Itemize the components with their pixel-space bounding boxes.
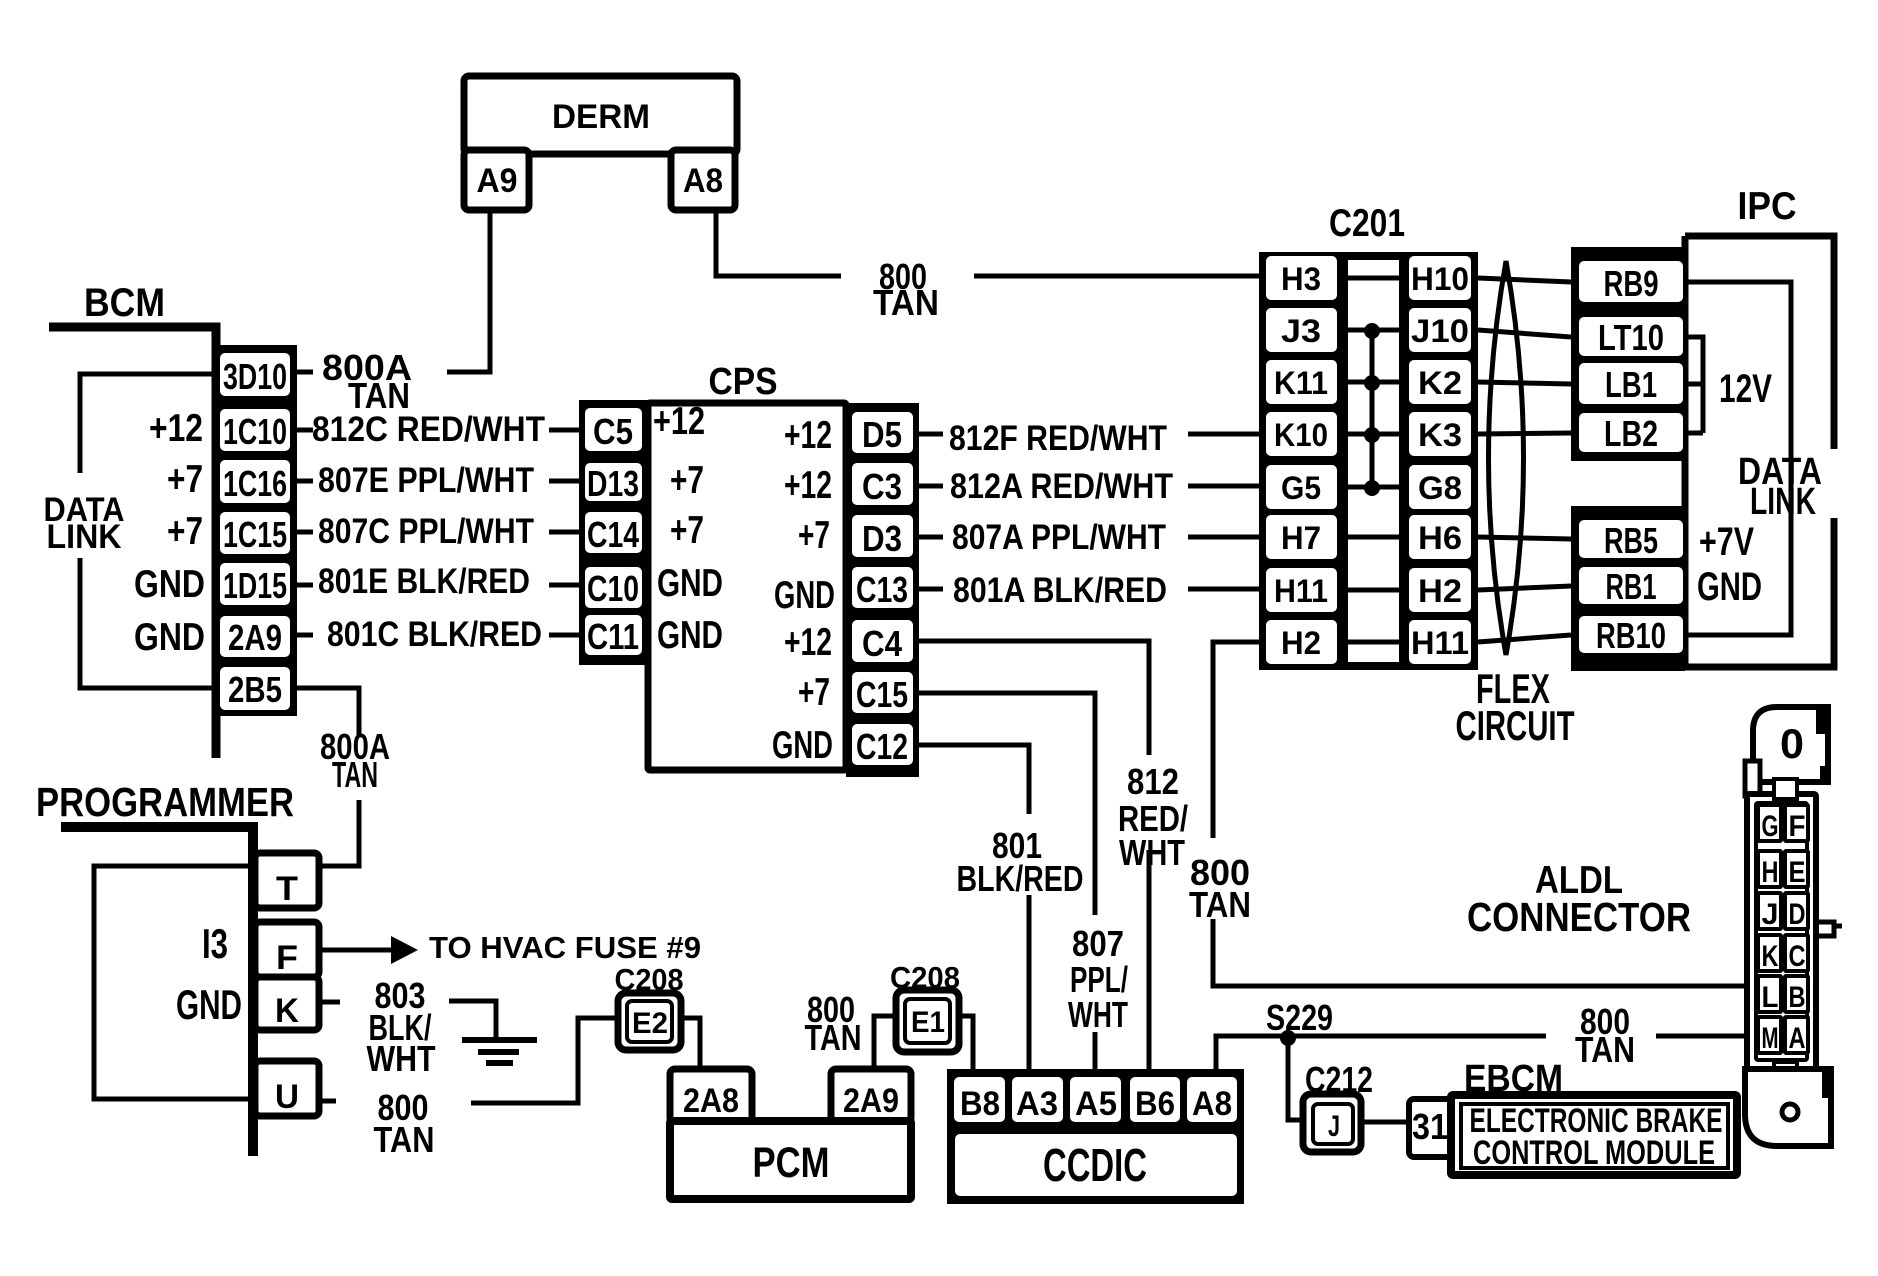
wire 800A TAN (BCM 3D10 to DERM A9) <box>297 210 490 372</box>
svg-text:0: 0 <box>1780 720 1804 767</box>
ALDL bottom notch <box>1774 1062 1797 1080</box>
ALDL top tab lower black accent <box>1820 766 1829 782</box>
pin H10 (C201 right) <box>1409 256 1471 300</box>
wire J10 to IPC LT10 <box>1478 330 1571 337</box>
svg-text:+7: +7 <box>798 514 830 557</box>
svg-text:PROGRAMMER: PROGRAMMER <box>36 779 294 825</box>
ALDL pin F <box>1785 805 1808 841</box>
PROGRAMMER internal bracket <box>94 866 253 1099</box>
svg-text:WHT: WHT <box>367 1038 436 1079</box>
CPS main body <box>648 403 846 770</box>
BCM pin group 2 <box>212 608 297 716</box>
svg-text:GND: GND <box>774 574 835 617</box>
wire 812A RED/WHT (CPS C3 to C201 G5) <box>919 484 1262 489</box>
svg-text:1C16: 1C16 <box>223 463 287 504</box>
svg-text:C12: C12 <box>856 726 908 767</box>
module IPC outline <box>1685 236 1834 667</box>
wire 801 BLK/RED (CPS C12 to CCDIC A3) <box>919 745 1029 1072</box>
svg-text:C14: C14 <box>587 514 639 555</box>
wire K2 to IPC LB1 <box>1478 382 1571 384</box>
wire E1 to PCM 2A9 <box>874 1016 896 1069</box>
svg-text:TO HVAC FUSE #9: TO HVAC FUSE #9 <box>429 930 701 965</box>
svg-text:CCDIC: CCDIC <box>1043 1139 1147 1191</box>
ALDL bottom tab black accent <box>1822 1069 1831 1098</box>
svg-text:GND: GND <box>657 562 723 605</box>
pin RB5 (IPC) <box>1579 520 1683 558</box>
module DERM <box>464 76 737 154</box>
pin LB1 (IPC) <box>1579 363 1683 404</box>
svg-text:D3: D3 <box>862 518 902 559</box>
svg-text:+12: +12 <box>653 400 705 443</box>
svg-text:TAN: TAN <box>374 1119 435 1160</box>
ALDL pin J <box>1758 893 1781 929</box>
pin RB10 (IPC) <box>1579 616 1683 653</box>
wire 800 TAN (DERM A8 to C201 H3) <box>716 210 841 276</box>
svg-text:B6: B6 <box>1135 1085 1175 1123</box>
pin 2A8 (PCM) <box>670 1069 752 1123</box>
svg-text:812: 812 <box>1127 761 1179 802</box>
svg-text:+12: +12 <box>149 407 203 450</box>
wire E2 to PCM 2A8 <box>681 1018 700 1069</box>
svg-text:807: 807 <box>1072 923 1124 964</box>
svg-text:H2: H2 <box>1418 573 1462 609</box>
ground symbol <box>462 1040 537 1063</box>
svg-text:H11: H11 <box>1274 573 1328 609</box>
svg-text:K: K <box>1762 940 1779 973</box>
svg-text:LB2: LB2 <box>1604 413 1658 454</box>
pin A5 (CCDIC) <box>1070 1077 1121 1122</box>
svg-text:E2: E2 <box>632 1007 668 1040</box>
wire 812 RED/WHT (CPS C4 to CCDIC B6) <box>919 641 1149 1072</box>
svg-text:CPS: CPS <box>709 361 778 403</box>
svg-text:G8: G8 <box>1418 470 1462 506</box>
wire E1 to CCDIC B8 <box>959 1016 973 1072</box>
svg-text:G: G <box>1762 810 1779 843</box>
pin F (PROGRAMMER) <box>255 922 319 977</box>
svg-text:RB9: RB9 <box>1604 263 1659 304</box>
svg-text:H7: H7 <box>1281 520 1321 556</box>
svg-text:3D10: 3D10 <box>223 356 287 397</box>
svg-text:H11: H11 <box>1411 625 1469 661</box>
pin K11 (C201 left) <box>1266 360 1337 404</box>
C201 cross wires between columns <box>1344 278 1408 642</box>
svg-text:CONTROL MODULE: CONTROL MODULE <box>1473 1134 1715 1172</box>
svg-text:2A8: 2A8 <box>683 1082 739 1120</box>
ALDL bottom mounting tab <box>1745 1069 1831 1146</box>
pin A8 (DERM) <box>671 150 735 210</box>
wire 801C BLK/RED (BCM 2A9 to CPS C11) <box>297 633 582 638</box>
svg-text:G5: G5 <box>1281 470 1321 506</box>
junction dot at C201 G5 row <box>1364 480 1380 496</box>
ALDL pin L <box>1758 976 1781 1012</box>
svg-text:BCM: BCM <box>84 281 165 325</box>
pin K2 (C201 right) <box>1409 360 1471 404</box>
svg-text:+7: +7 <box>798 671 830 714</box>
ALDL top tab black accent <box>1816 708 1829 734</box>
pin C12 (CPS) <box>852 724 913 765</box>
pin C11 (CPS) <box>585 615 642 655</box>
svg-text:H2: H2 <box>1281 625 1321 661</box>
ALDL pin E <box>1785 851 1808 887</box>
pin U (PROGRAMMER) <box>255 1061 319 1116</box>
svg-text:H: H <box>1762 856 1779 889</box>
splice dot S229 <box>1280 1030 1296 1046</box>
connector C212 J <box>1303 1094 1361 1152</box>
svg-text:GND: GND <box>1697 565 1762 609</box>
BCM data link bracket <box>80 374 212 688</box>
module EBCM <box>1451 1095 1737 1175</box>
pin G5 (C201 left) <box>1266 465 1337 509</box>
svg-text:812A RED/WHT: 812A RED/WHT <box>950 467 1173 506</box>
ALDL pin B <box>1785 976 1808 1012</box>
pin A3 (CCDIC) <box>1012 1077 1063 1122</box>
svg-text:C: C <box>1789 940 1806 973</box>
svg-text:2B5: 2B5 <box>228 669 282 710</box>
svg-text:807E PPL/WHT: 807E PPL/WHT <box>318 461 534 500</box>
svg-text:1C15: 1C15 <box>223 514 287 555</box>
pin 1C15 (BCM) <box>220 512 290 554</box>
svg-text:801A BLK/RED: 801A BLK/RED <box>953 571 1167 610</box>
wire 803 BLK/WHT (PROGRAMMER K to ground) <box>319 1001 496 1037</box>
svg-text:GND: GND <box>176 981 242 1028</box>
wire S229 to C212 J <box>1288 1038 1303 1120</box>
pin C13 (CPS) <box>852 567 913 608</box>
module PCM <box>670 1121 911 1199</box>
svg-text:E1: E1 <box>911 1006 945 1039</box>
svg-text:B: B <box>1789 981 1806 1014</box>
svg-text:T: T <box>276 870 298 908</box>
svg-text:J10: J10 <box>1411 313 1469 349</box>
pin 1C10 (BCM) <box>220 409 290 451</box>
pin C10 (CPS) <box>585 567 642 608</box>
pin K10 (C201 left) <box>1266 412 1337 456</box>
pin A9 (DERM) <box>464 150 529 210</box>
svg-text:1D15: 1D15 <box>223 565 287 606</box>
pin J3 (C201 left) <box>1266 308 1337 352</box>
ALDL pin C <box>1785 935 1808 971</box>
svg-text:K3: K3 <box>1418 417 1462 453</box>
ALDL body <box>1747 794 1816 1069</box>
svg-text:GND: GND <box>772 724 833 767</box>
svg-text:H6: H6 <box>1418 520 1462 556</box>
pin G8 (C201 right) <box>1409 465 1471 509</box>
ALDL pin M <box>1758 1017 1781 1053</box>
svg-text:IPC: IPC <box>1738 185 1797 228</box>
ALDL side stud <box>1816 922 1842 936</box>
svg-text:RB10: RB10 <box>1596 615 1666 656</box>
pin J10 (C201 right) <box>1409 308 1471 352</box>
svg-text:C10: C10 <box>587 568 639 609</box>
pin D5 (CPS) <box>852 412 913 453</box>
svg-text:K2: K2 <box>1418 365 1462 401</box>
svg-text:TAN: TAN <box>873 282 939 323</box>
junction dot at C201 K11 row <box>1364 375 1380 391</box>
wire 800 TAN (S229 run to ALDL) <box>1216 1036 1748 1072</box>
svg-text:812F RED/WHT: 812F RED/WHT <box>949 419 1167 458</box>
pin B8 (CCDIC) <box>954 1077 1005 1122</box>
wire 800 TAN (PROGRAMMER U to C208 E2) <box>319 1018 618 1103</box>
pin D13 (CPS) <box>585 463 642 501</box>
ALDL pin D <box>1785 893 1808 929</box>
svg-text:+12: +12 <box>784 621 832 664</box>
wire 812C RED/WHT (BCM 1C10 to CPS C5) <box>297 428 582 433</box>
svg-text:H3: H3 <box>1281 261 1321 297</box>
svg-text:I3: I3 <box>202 920 228 967</box>
svg-text:D: D <box>1789 898 1806 931</box>
wire H2 to IPC RB1 <box>1478 586 1571 590</box>
svg-text:+7: +7 <box>167 510 203 553</box>
connector C208 E1 <box>896 990 959 1052</box>
pin C14 (CPS) <box>585 512 642 553</box>
pin 1C16 (BCM) <box>220 460 290 503</box>
svg-text:TAN: TAN <box>332 754 378 795</box>
pin H3 (C201 left) <box>1266 256 1337 300</box>
svg-text:TAN: TAN <box>1575 1029 1635 1070</box>
svg-text:+7V: +7V <box>1699 520 1754 564</box>
wire C212 J to EBCM 31 <box>1361 1120 1409 1125</box>
pin C4 (CPS) <box>852 620 913 662</box>
CPS right pin group <box>846 403 919 777</box>
svg-text:A9: A9 <box>477 162 518 200</box>
svg-text:K11: K11 <box>1274 365 1328 401</box>
svg-text:E: E <box>1789 856 1806 889</box>
svg-text:C5: C5 <box>593 411 633 452</box>
pin B6 (CCDIC) <box>1130 1077 1180 1122</box>
pin RB1 (IPC) <box>1579 567 1683 604</box>
svg-text:D5: D5 <box>862 414 902 455</box>
svg-text:CONNECTOR: CONNECTOR <box>1467 894 1691 940</box>
svg-text:GND: GND <box>657 614 723 657</box>
junction dot at C201 K10 row <box>1364 427 1380 443</box>
svg-text:A8: A8 <box>1192 1085 1232 1123</box>
svg-text:H10: H10 <box>1411 261 1469 297</box>
ALDL top neck notch <box>1745 761 1760 796</box>
svg-text:M: M <box>1762 1022 1779 1055</box>
wire 807C PPL/WHT (BCM 1C15 to CPS C14) <box>297 530 582 535</box>
pin 2A9 (BCM) <box>220 616 290 657</box>
pin LT10 (IPC) <box>1579 317 1683 356</box>
svg-text:2A9: 2A9 <box>843 1082 899 1120</box>
junction dot at C201 J3 row <box>1364 323 1380 339</box>
pin 3D10 (BCM) <box>220 353 290 396</box>
wire K3 to IPC LB2 <box>1478 433 1571 434</box>
svg-text:LB1: LB1 <box>1605 364 1657 405</box>
svg-text:C3: C3 <box>862 466 902 507</box>
ALDL body top notch <box>1774 779 1797 799</box>
svg-text:31: 31 <box>1412 1106 1448 1147</box>
svg-text:C201: C201 <box>1329 202 1405 245</box>
svg-text:J3: J3 <box>1281 313 1321 349</box>
CPS left pin group <box>579 400 648 665</box>
pin 2B5 (BCM) <box>220 667 290 710</box>
svg-text:C15: C15 <box>856 674 908 715</box>
pin C15 (CPS) <box>852 672 913 713</box>
flex circuit lens symbol <box>1489 261 1524 655</box>
svg-text:+7: +7 <box>670 509 704 552</box>
IPC data link bus wire <box>1685 282 1791 635</box>
pin H7 (C201 left) <box>1266 515 1337 559</box>
pin H2 (C201 left) <box>1266 620 1337 664</box>
svg-text:C11: C11 <box>587 616 639 657</box>
svg-text:RB5: RB5 <box>1604 520 1658 561</box>
svg-text:LINK: LINK <box>1750 481 1816 523</box>
pin H6 (C201 right) <box>1409 515 1471 559</box>
svg-text:C13: C13 <box>856 569 908 610</box>
wire 807A PPL/WHT (CPS D3 to C201 H7) <box>919 535 1262 540</box>
wire 807 PPL/WHT (CPS C15 to CCDIC A5) <box>919 693 1095 1072</box>
pin 2A9 (PCM) <box>831 1069 911 1123</box>
svg-text:+7: +7 <box>167 458 203 501</box>
module PROGRAMMER outline <box>61 827 253 1156</box>
pin T (PROGRAMMER) <box>255 853 319 908</box>
svg-text:+12: +12 <box>784 414 832 457</box>
wire 801A BLK/RED (CPS C13 to C201 H11) <box>919 587 1262 592</box>
svg-text:WHT: WHT <box>1119 832 1185 873</box>
ALDL pin K <box>1758 935 1781 971</box>
svg-text:807C PPL/WHT: 807C PPL/WHT <box>318 512 534 551</box>
svg-text:RB1: RB1 <box>1606 566 1657 607</box>
IPC pin group 2 <box>1571 506 1685 671</box>
svg-text:C4: C4 <box>862 623 902 664</box>
module BCM outline <box>49 327 216 758</box>
svg-text:A: A <box>1789 1022 1806 1055</box>
svg-text:CIRCUIT: CIRCUIT <box>1456 702 1575 749</box>
svg-text:K: K <box>275 992 299 1030</box>
pin LB2 (IPC) <box>1579 413 1683 452</box>
ALDL bottom tab hole <box>1782 1104 1798 1120</box>
svg-text:B8: B8 <box>960 1085 1000 1123</box>
svg-text:A5: A5 <box>1075 1085 1117 1123</box>
svg-text:+7: +7 <box>670 459 704 502</box>
svg-text:1C10: 1C10 <box>223 411 287 452</box>
svg-text:12V: 12V <box>1719 367 1772 411</box>
svg-text:J: J <box>1762 898 1779 931</box>
pin D3 (CPS) <box>852 515 913 557</box>
pin K3 (C201 right) <box>1409 412 1471 456</box>
wire 800 TAN (continued to C201 H3) <box>974 274 1262 279</box>
wire 807E PPL/WHT (BCM 1C16 to CPS D13) <box>297 479 582 484</box>
pin RB9 (IPC) <box>1579 261 1683 302</box>
ALDL pin A <box>1785 1017 1808 1053</box>
svg-text:K10: K10 <box>1274 417 1328 453</box>
pin H11 (C201 right) <box>1409 620 1471 664</box>
svg-text:LINK: LINK <box>47 518 122 556</box>
svg-text:801E BLK/RED: 801E BLK/RED <box>318 562 530 601</box>
svg-text:U: U <box>275 1078 299 1116</box>
svg-text:L: L <box>1762 981 1779 1014</box>
IPC 12V bracket <box>1685 337 1703 433</box>
pin 31 (EBCM) <box>1409 1099 1451 1157</box>
svg-text:2A9: 2A9 <box>228 617 282 658</box>
pin A8 (CCDIC) <box>1187 1077 1237 1122</box>
ALDL top mounting tab <box>1753 707 1828 782</box>
svg-text:TAN: TAN <box>805 1017 862 1058</box>
wire 800A TAN (BCM 2B5 to PROGRAMMER T) <box>297 688 359 866</box>
pin C5 (CPS) <box>585 408 642 451</box>
pin C3 (CPS) <box>852 463 913 505</box>
wire H11 to IPC RB10 <box>1478 635 1571 642</box>
svg-text:F: F <box>1789 810 1806 843</box>
svg-text:D13: D13 <box>587 463 639 504</box>
svg-text:S229: S229 <box>1266 997 1333 1038</box>
ALDL pin H <box>1758 851 1781 887</box>
svg-text:801C BLK/RED: 801C BLK/RED <box>327 615 542 654</box>
wire H10 to IPC RB9 <box>1478 278 1571 282</box>
connector C208 E2 <box>618 993 681 1050</box>
wire 800 TAN (C201 H2 down to ALDL) <box>1213 642 1748 986</box>
svg-text:A8: A8 <box>683 162 723 200</box>
C201 internal bus wire <box>1370 330 1375 487</box>
svg-text:PCM: PCM <box>753 1139 830 1187</box>
module CCDIC body <box>947 1069 1244 1204</box>
svg-text:J: J <box>1328 1110 1340 1143</box>
ALDL pin G <box>1758 805 1781 841</box>
svg-text:BLK/RED: BLK/RED <box>957 858 1084 899</box>
svg-text:GND: GND <box>134 616 205 659</box>
connector C201 outline <box>1259 252 1478 670</box>
pin 1D15 (BCM) <box>220 563 290 605</box>
pin K (PROGRAMMER) <box>255 977 319 1030</box>
ALDL body inner wall <box>1756 803 1807 1060</box>
IPC pin group 1 <box>1571 247 1685 461</box>
wire 801E BLK/RED (BCM 1D15 to CPS C10) <box>297 583 582 588</box>
wire 812F RED/WHT (CPS D5 to C201 K10) <box>919 432 1262 437</box>
svg-text:+12: +12 <box>784 464 832 507</box>
C201 middle channel <box>1348 260 1399 662</box>
pin H11 (C201 left) <box>1266 568 1337 612</box>
arrowhead to HVAC fuse <box>391 936 418 964</box>
svg-text:WHT: WHT <box>1068 994 1128 1035</box>
pin H2 (C201 right) <box>1409 568 1471 612</box>
wire H6 to IPC RB5 <box>1478 537 1571 539</box>
svg-text:LT10: LT10 <box>1598 317 1664 358</box>
wire to HVAC fuse (PROGRAMMER F) <box>319 948 391 953</box>
svg-text:TAN: TAN <box>1189 884 1251 925</box>
svg-text:812C RED/WHT: 812C RED/WHT <box>312 410 545 449</box>
svg-text:F: F <box>276 939 298 977</box>
BCM pin group 1 <box>212 345 297 612</box>
svg-text:A3: A3 <box>1016 1085 1058 1123</box>
svg-text:DERM: DERM <box>552 98 650 136</box>
svg-text:807A PPL/WHT: 807A PPL/WHT <box>952 518 1166 557</box>
svg-text:GND: GND <box>134 563 205 606</box>
